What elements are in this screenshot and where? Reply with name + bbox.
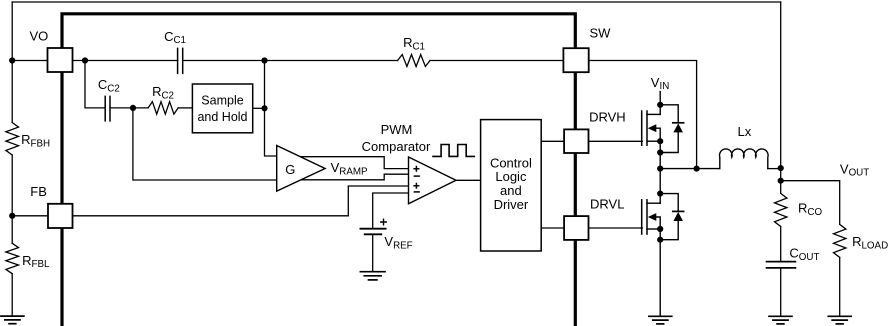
wire: control box to DRVL pin [541,227,564,229]
node: FB junction [9,213,15,219]
waveform: PWM square wave [432,145,475,157]
svg-text:SW: SW [590,26,612,41]
ground: power stage [648,316,673,324]
battery VREF [360,228,385,230]
svg-text:VRAMP: VRAMP [331,160,368,177]
svg-text:RFBL: RFBL [22,253,50,270]
wire: RFBL to ground [11,274,13,316]
transistor Q2 (low-side NFET) [641,200,643,234]
node: VIN split [657,102,663,108]
wire: top loop down to VOUT node [780,2,782,193]
node: Q2 drain split [657,191,663,197]
node: switch node [657,166,663,172]
pin DRVH [564,129,588,153]
svg-text:PWM: PWM [381,122,413,137]
wire: CC2 to node C [110,107,148,109]
op-amp G (gain block) [277,146,325,192]
svg-text:COUT: COUT [789,246,819,263]
resistor RFBL [6,243,19,273]
svg-text:and: and [500,183,522,198]
block: Sample and Hold [192,84,252,133]
svg-text:CC2: CC2 [98,77,120,94]
svg-text:VIN: VIN [651,75,669,92]
wire: Sample and Hold to node B vertical [253,107,265,109]
svg-text:RFBH: RFBH [21,132,50,149]
node: VOUT tee [778,178,784,184]
wire: left rail top (to RFBH) [11,2,13,123]
pin -: comparator input 4 [414,191,420,193]
wire: node B to RC1 [265,60,398,62]
wire: VOUT rail to RLOAD [781,181,840,225]
node: sample-hold output junction [261,105,267,111]
node: SW wire junction [694,166,700,172]
svg-text:Control: Control [490,155,532,170]
node: Q2 source [657,226,663,232]
pin +: comparator input 1 [413,166,419,172]
block: Control Logic and Driver [481,120,542,251]
svg-text:Comparator: Comparator [362,139,431,154]
wire: comparator output to control box [456,179,481,181]
svg-text:Sample: Sample [201,93,243,107]
resistor RFBH [6,123,19,156]
wire: VIN stub to high-side drain [659,92,661,115]
ground: RLOAD [827,316,852,324]
svg-text:Logic: Logic [495,169,527,184]
wire: VREF to comparator input 4 [373,193,409,229]
wire: RC1 to SW pin [430,60,563,62]
node: CC2/RC2 junction [130,105,136,111]
node: VO rail left junction [9,57,15,63]
node: Q1 source [657,138,663,144]
comparator U1 (PWM comparator) [409,157,457,204]
wire: switch node rail [660,168,720,170]
ground: COUT [768,316,793,324]
svg-text:RCO: RCO [798,201,822,218]
svg-text:DRVL: DRVL [590,196,624,211]
wire: outer top loop VO to VOUT [12,1,781,3]
diode D1 (high-side body diode) [660,105,678,123]
pin -: comparator input 2 [414,175,420,177]
inductor Lx [720,149,769,169]
svg-text:DRVH: DRVH [589,110,626,125]
wire: FB node to RFBL [11,216,13,244]
wire: RC2 to Sample and Hold [178,107,192,109]
wire: DRVL pin to low-side gate [589,227,643,229]
capacitor CC2 [105,96,110,121]
svg-text:RC1: RC1 [403,35,425,52]
capacitor CC1 [178,48,183,73]
node: CC1/RC1 junction [261,57,267,63]
wire: COUT to ground [780,268,782,316]
wire: VRAMP bottom output to comparator [296,174,409,180]
pin FB [48,204,73,228]
pin +: comparator input 3 [413,183,419,189]
resistor RC2 [148,102,178,114]
svg-text:G: G [285,162,295,177]
node: D2 anode join [657,237,663,243]
svg-text:FB: FB [30,184,47,199]
resistor RLOAD [834,224,846,257]
svg-text:VREF: VREF [384,234,412,251]
ground: feedback divider [0,316,25,324]
IC boundary (thick) [62,14,575,326]
resistor RC1 [398,55,430,67]
wire: RCO to COUT [780,227,782,262]
svg-text:VO: VO [30,29,49,44]
wire: DRVH pin to high-side gate [589,140,643,142]
wire: RLOAD to ground [839,257,841,316]
pin DRVL [564,216,588,240]
wire: CC1 to node B [183,60,265,62]
capacitor COUT [767,262,796,268]
svg-text:Lx: Lx [738,124,752,139]
node: inductor/VOUT junction [778,165,784,171]
wire: VRAMP top output to comparator [296,157,409,169]
wire: inductor to VOUT node [768,168,781,170]
pin SW [563,48,588,72]
wire: SW pin to switch node [589,61,697,169]
resistor RCO [775,193,787,226]
wire: node C down to G amp input 2 [133,108,277,180]
svg-text:RC2: RC2 [152,84,174,101]
svg-text:CC1: CC1 [164,29,186,46]
wire: VO rail left [12,60,47,62]
transistor Q1 (high-side NFET) [641,111,643,145]
ground: below VREF [360,271,385,273]
svg-text:Driver: Driver [494,197,529,212]
wire: VO pin to CC1 [73,60,178,62]
svg-text:RLOAD: RLOAD [852,234,888,251]
node: CC2 branch junction [82,57,88,63]
wire: FB pin left [12,215,47,217]
wire: node B down to G amp input 1 [265,61,278,157]
wire: RFBH to FB node [11,155,13,216]
wire: CC2 branch down [85,61,105,108]
svg-text:and Hold: and Hold [197,110,247,124]
svg-text:VOUT: VOUT [840,161,869,178]
wire: control box to DRVH pin [541,140,564,142]
diode D2 (low-side body diode) [660,194,678,212]
wire: switch node to low-side drain [659,169,661,204]
pin VO [48,48,73,72]
wire: FB pin to comparator input 3 [73,186,409,216]
node: D1 anode join [657,149,663,155]
